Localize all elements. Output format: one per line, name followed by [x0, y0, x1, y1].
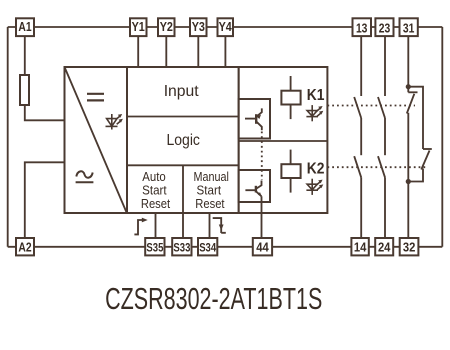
svg-text:23: 23 [379, 21, 391, 36]
wire S34 to block [209, 213, 211, 238]
terminal S34 [198, 238, 217, 255]
wire Y1 to Input [137, 36, 139, 67]
contact col1 row2 NO [354, 156, 361, 177]
wire 31 to node [407, 36, 409, 92]
terminal 44 [253, 238, 272, 255]
contact NC K2 [421, 149, 432, 170]
svg-text:31: 31 [403, 21, 415, 36]
LED indicator power [106, 114, 123, 130]
contact 31-32 NC K1 [407, 92, 418, 113]
wire Y4 to Input [224, 36, 226, 67]
wire S33 to block [182, 213, 184, 238]
svg-text:24: 24 [378, 240, 391, 254]
wire resistor to power block [25, 105, 65, 120]
wire S35 to block [155, 213, 157, 238]
svg-text:Reset: Reset [195, 197, 225, 211]
falling edge trigger symbol [213, 218, 226, 233]
terminal 31 [400, 18, 418, 36]
rising edge trigger symbol [134, 218, 147, 235]
svg-text:Y2: Y2 [160, 20, 173, 34]
optocoupler U1 phototransistor [245, 108, 262, 130]
LED indicator K2 [306, 179, 323, 195]
resistor R1 [20, 75, 29, 105]
svg-text:S35: S35 [146, 242, 163, 254]
wire opto U2 emitter to terminal 44 [261, 196, 263, 238]
terminal Y4 [218, 18, 234, 36]
svg-text:Input: Input [164, 83, 200, 100]
optocoupler U2 phototransistor [245, 181, 262, 197]
power supply block [65, 67, 128, 213]
svg-text:Start: Start [197, 184, 222, 198]
svg-text:Logic: Logic [166, 132, 200, 149]
wire top rail [8, 26, 443, 28]
svg-text:CZSR8302-2AT1BT1S: CZSR8302-2AT1BT1S [105, 282, 322, 316]
terminal 14 [351, 238, 368, 255]
svg-text:K1: K1 [307, 87, 325, 104]
svg-text:A1: A1 [18, 20, 31, 34]
terminal 24 [375, 238, 393, 255]
svg-text:44: 44 [256, 240, 269, 254]
wire Y2 to Input [165, 36, 167, 67]
svg-text:K2: K2 [307, 160, 325, 177]
contact 13-14 NO [354, 97, 361, 118]
AC symbol [76, 171, 94, 182]
wire bottom rail [8, 246, 443, 248]
logic block (Input / Logic / Reset) [127, 67, 239, 213]
wire node to 32 [407, 182, 409, 239]
terminal 23 [375, 18, 393, 36]
mechanical linkage K2 dotted [327, 166, 426, 168]
wire NC contact down [407, 113, 409, 182]
svg-text:Auto: Auto [142, 170, 166, 184]
mechanical linkage K1 dotted [327, 105, 415, 107]
terminal Y3 [190, 18, 207, 36]
contact 23-24 NO [378, 97, 385, 118]
terminal S33 [172, 238, 191, 255]
optocoupler U2 box [239, 170, 270, 202]
DC symbol [87, 94, 104, 101]
LED indicator K1 [306, 105, 323, 121]
divider Logic/Reset [127, 164, 239, 166]
divider K1/K2 [239, 140, 328, 142]
terminal S35 [145, 238, 164, 255]
svg-text:Reset: Reset [141, 197, 171, 211]
wire branch right NC K2 [408, 87, 423, 182]
optical link dotted [261, 132, 263, 181]
contact col2 row2 NO [378, 156, 385, 177]
wire right frame [441, 27, 443, 247]
terminal Y1 [130, 18, 147, 36]
svg-text:14: 14 [354, 240, 367, 254]
relay K1 coil [281, 76, 300, 119]
label Auto Start Reset [141, 170, 171, 211]
svg-text:Start: Start [142, 184, 167, 198]
wire 13 to contact [360, 36, 362, 96]
node junction bottom [406, 179, 411, 184]
terminal A2 [16, 238, 34, 255]
terminal A1 [16, 18, 34, 36]
wire A1 to resistor [24, 36, 26, 75]
svg-text:Manual: Manual [194, 170, 229, 184]
svg-text:Y1: Y1 [132, 20, 145, 34]
wire left frame [7, 27, 9, 247]
wire between contacts col2 [384, 118, 386, 155]
wire Y3 to Input [197, 36, 199, 67]
svg-text:13: 13 [356, 21, 368, 36]
svg-text:32: 32 [403, 240, 416, 254]
wire A2 to power block [25, 162, 65, 238]
divider Auto/Manual [182, 165, 184, 213]
divider Input/Logic [127, 116, 239, 118]
relay output block [239, 67, 328, 213]
terminal 13 [353, 18, 372, 36]
relay K2 coil [281, 150, 300, 193]
wire contact to 24 [384, 177, 386, 238]
svg-text:A2: A2 [18, 240, 31, 254]
terminal 32 [400, 238, 419, 255]
wire 23 to contact [384, 36, 386, 96]
node junction top [406, 84, 411, 89]
svg-text:S34: S34 [199, 242, 216, 254]
wire between contacts col1 [360, 118, 362, 155]
wire contact to 14 [360, 177, 362, 238]
label Manual Start Reset [194, 170, 229, 211]
optocoupler U1 box [239, 99, 270, 139]
terminal Y2 [158, 18, 175, 36]
svg-text:Y3: Y3 [192, 20, 205, 34]
svg-text:S33: S33 [173, 242, 190, 254]
power block diagonal [65, 67, 127, 213]
svg-text:Y4: Y4 [219, 20, 232, 34]
